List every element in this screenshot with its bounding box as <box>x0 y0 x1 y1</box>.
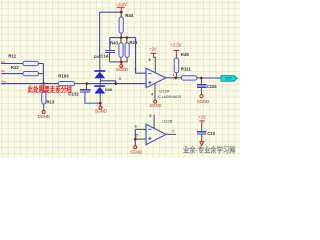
svg-text:+3.3V: +3.3V <box>170 43 181 48</box>
svg-text:U12A: U12A <box>159 88 169 93</box>
svg-text:8: 8 <box>149 58 151 62</box>
svg-text:SGND: SGND <box>149 103 161 108</box>
svg-text:4: 4 <box>151 92 153 96</box>
capacitor C104 <box>197 78 207 94</box>
capacitor C10 <box>197 124 207 142</box>
resistor R13 <box>42 92 46 104</box>
wire R44 bottom lead <box>120 33 122 38</box>
node junction A1 <box>120 36 123 39</box>
wire port2 to R12 <box>1 73 23 75</box>
node junction output port <box>200 77 203 80</box>
svg-text:DGND: DGND <box>38 114 50 119</box>
wire R103 right lead <box>75 83 87 85</box>
wire diode D4 cathode lead <box>99 58 101 70</box>
wire node A to opamp pin2 <box>136 38 146 74</box>
wire R13 bottom lead <box>43 104 45 110</box>
node junction C132 top <box>86 82 89 85</box>
ground SGND power port under diodes <box>99 103 101 106</box>
resistor R43 <box>119 38 123 62</box>
svg-text:3: 3 <box>119 77 121 81</box>
node junction ref divider <box>120 61 123 64</box>
pin 8 line U12B <box>153 115 155 129</box>
svg-text:IC LM2904ADR: IC LM2904ADR <box>158 94 181 99</box>
svg-text:SGND: SGND <box>130 149 142 154</box>
resistor R11 <box>23 61 39 65</box>
svg-text:OUT: OUT <box>225 77 232 81</box>
diode D4 (clamp to 3.3V) <box>94 71 105 78</box>
svg-text:8: 8 <box>149 114 151 118</box>
svg-text:业余-专业余学习网: 业余-专业余学习网 <box>183 146 236 155</box>
ground SGND power port under U12B <box>134 146 137 149</box>
wire pin8 V+ <box>154 56 156 73</box>
svg-text:7: 7 <box>172 129 174 133</box>
svg-text:R12: R12 <box>11 65 20 70</box>
wire pin6 stub <box>135 128 146 130</box>
wire junction to corner <box>100 11 122 13</box>
svg-text:R111: R111 <box>181 67 192 72</box>
capacitor C132 <box>80 84 100 104</box>
svg-text:R43: R43 <box>110 41 119 46</box>
svg-text:SGND: SGND <box>197 99 209 104</box>
wire jog to main net <box>100 81 115 84</box>
svg-text:此处需要走差分线: 此处需要走差分线 <box>28 85 73 94</box>
svg-text:R45: R45 <box>181 52 190 57</box>
node junction jog <box>114 82 117 85</box>
diode D48 (clamp to SGND) <box>94 86 105 93</box>
node junction U12B inputs <box>134 138 137 141</box>
port OUT (cyan sheet entry) <box>221 76 237 82</box>
ground SGND power port under U12A <box>154 100 157 103</box>
wire D4 anode to net jog <box>99 78 101 85</box>
wire R111 right lead <box>197 77 201 79</box>
ground SGND power port under divider <box>120 62 122 64</box>
svg-text:R13: R13 <box>46 99 55 104</box>
svg-text:+3.3V: +3.3V <box>116 2 127 7</box>
wire U12B output stub <box>166 133 176 135</box>
svg-text:+2V: +2V <box>149 47 157 52</box>
capacitor C14 <box>105 38 121 62</box>
wire inputs tie vertical <box>134 129 136 145</box>
ground SGND power port under C104 <box>200 95 203 98</box>
wire R44 top lead <box>120 12 122 17</box>
svg-text:C10: C10 <box>207 131 215 136</box>
wire R12 right lead <box>39 73 44 75</box>
op-amp U12B <box>146 124 166 145</box>
svg-text:+2V: +2V <box>198 115 206 120</box>
wire R13 top lead <box>43 84 45 92</box>
svg-text:U12B: U12B <box>162 118 172 123</box>
node junction under +3.3V <box>120 11 123 14</box>
wire +3.3V rail top: corner down to diode chain <box>99 12 101 58</box>
svg-text:R44: R44 <box>125 13 134 18</box>
svg-text:SGND: SGND <box>95 109 107 114</box>
wire pin4 V- <box>154 84 156 101</box>
svg-text:R11: R11 <box>8 54 16 59</box>
svg-text:6: 6 <box>135 124 137 128</box>
svg-text:R103: R103 <box>58 73 69 78</box>
svg-text:Vin: Vin <box>1 79 6 83</box>
resistor R103 <box>58 82 74 86</box>
resistor R12 <box>23 72 39 76</box>
wire main net to opamp pin3 <box>87 83 146 85</box>
svg-text:SGND: SGND <box>116 67 128 72</box>
wire to output port <box>201 77 221 79</box>
svg-text:C14: C14 <box>100 54 109 59</box>
node junction at R13 top <box>42 82 45 85</box>
wire U12A output <box>166 77 181 79</box>
wire pin5 stub <box>135 138 146 140</box>
resistor R111 <box>181 76 197 80</box>
svg-text:5: 5 <box>136 134 138 138</box>
wire R11 right lead <box>39 63 44 65</box>
wire node A horizontal <box>110 37 136 39</box>
svg-text:1: 1 <box>173 73 175 77</box>
resistor R26 <box>121 38 129 62</box>
node junction D48/C132 <box>99 102 102 105</box>
op-amp U12A <box>146 68 166 88</box>
svg-text:D48: D48 <box>105 88 112 92</box>
resistor R45 <box>174 55 179 78</box>
node junction output <box>175 76 178 79</box>
wire port3 to R103 <box>1 83 58 85</box>
ground DGND power port <box>42 110 45 113</box>
svg-text:Vi-: Vi- <box>1 69 5 73</box>
resistor R44 <box>119 17 123 33</box>
wire D48 anode down <box>99 94 101 104</box>
node junction A2 <box>125 36 128 39</box>
svg-text:2: 2 <box>135 68 137 72</box>
ground arrow under C10 <box>200 142 204 146</box>
wire port1 to R11 <box>1 63 23 65</box>
wire R11/R12 join vertical <box>42 64 44 84</box>
svg-text:C104: C104 <box>207 84 218 89</box>
svg-text:R26: R26 <box>129 40 138 45</box>
